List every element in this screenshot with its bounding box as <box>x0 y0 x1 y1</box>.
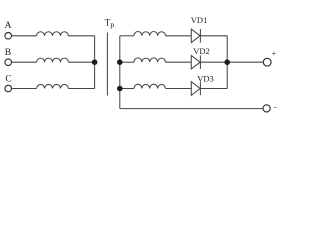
wire winding 1 to diode VD1 <box>166 35 192 37</box>
wire VD3 to plus bus <box>200 88 227 90</box>
secondary winding 1 <box>134 31 166 35</box>
node C terminal <box>5 85 12 92</box>
wire bus to secondary winding 2 <box>120 61 134 63</box>
junction secondary star row2 <box>117 59 123 65</box>
primary winding phase A <box>37 32 69 36</box>
wire bus to secondary winding 1 <box>120 35 134 37</box>
wire minus rail <box>120 108 263 110</box>
wire winding 3 to diode VD3 <box>166 88 192 90</box>
svg-text:VD2: VD2 <box>193 46 210 56</box>
node A terminal <box>5 33 12 40</box>
node plus terminal <box>263 58 271 66</box>
wire winding B to primary star bus <box>68 61 94 63</box>
wire winding C to primary star bus <box>68 88 94 90</box>
diode VD2 <box>191 55 200 68</box>
junction secondary star row3 <box>117 86 123 92</box>
svg-text:A: A <box>5 21 12 31</box>
wire plus bus to plus terminal <box>227 61 263 63</box>
node minus terminal <box>263 105 270 112</box>
svg-text:-: - <box>274 102 277 111</box>
primary winding phase B <box>37 58 69 62</box>
wire primary star bus <box>94 36 96 89</box>
wire winding A to primary star bus <box>68 35 94 37</box>
wire bus to secondary winding 3 <box>120 88 134 90</box>
secondary winding 2 <box>134 58 166 62</box>
primary winding phase C <box>37 84 69 88</box>
wire secondary star bus <box>119 36 121 109</box>
diode VD1 <box>191 29 200 43</box>
node B terminal <box>5 59 12 66</box>
svg-text:VD3: VD3 <box>197 73 214 83</box>
wire B to winding <box>12 61 37 63</box>
wire A to winding <box>12 35 37 37</box>
svg-text:B: B <box>5 48 11 58</box>
svg-text:+: + <box>272 49 277 58</box>
transformer Tp core <box>106 33 108 96</box>
diode VD3 <box>191 82 200 96</box>
wire VD2 to plus bus <box>200 61 227 63</box>
secondary winding 3 <box>134 84 166 88</box>
wire C to winding <box>12 88 37 90</box>
svg-text:Tp: Tp <box>105 19 115 29</box>
svg-text:C: C <box>5 74 11 84</box>
wire winding 2 to diode VD2 <box>166 61 192 63</box>
wire plus bus <box>226 36 228 89</box>
wire VD1 to plus bus <box>200 35 227 37</box>
junction plus bus <box>224 59 230 65</box>
junction primary star point <box>92 59 98 65</box>
svg-text:VD1: VD1 <box>191 15 208 25</box>
